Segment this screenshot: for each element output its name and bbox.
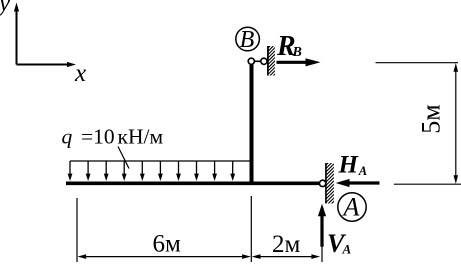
svg-text:2м: 2м bbox=[272, 231, 301, 258]
svg-text:A: A bbox=[358, 164, 367, 178]
svg-text:B: B bbox=[292, 45, 302, 60]
svg-text:кН/м: кН/м bbox=[118, 125, 164, 149]
svg-text:H: H bbox=[338, 151, 360, 178]
svg-text:B: B bbox=[240, 27, 255, 53]
svg-text:A: A bbox=[342, 242, 352, 257]
svg-text:x: x bbox=[74, 60, 86, 87]
svg-text:5м: 5м bbox=[417, 104, 446, 133]
svg-text:y: y bbox=[0, 0, 11, 17]
svg-text:q: q bbox=[62, 125, 73, 149]
svg-text:6м: 6м bbox=[153, 231, 182, 258]
svg-text:A: A bbox=[342, 193, 360, 222]
svg-text:=10: =10 bbox=[81, 125, 115, 149]
